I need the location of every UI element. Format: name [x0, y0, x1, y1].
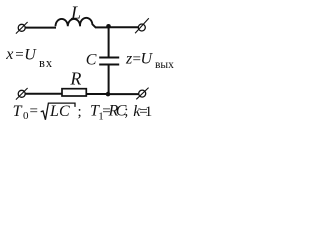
- node (top junction): [106, 24, 111, 29]
- capacitor C: [99, 58, 119, 65]
- node z = Uvyh label: [125, 50, 174, 71]
- svg-text:;: ;: [124, 103, 128, 119]
- svg-text:L: L: [49, 103, 59, 120]
- wire capacitor to bottom node: [108, 66, 110, 95]
- svg-text:T: T: [13, 103, 23, 120]
- svg-text:=: =: [15, 47, 23, 63]
- wire node to capacitor: [108, 27, 110, 56]
- svg-text:1: 1: [145, 104, 153, 120]
- svg-text:x: x: [5, 46, 13, 63]
- wire resistor to bottom node: [86, 93, 108, 95]
- terminal (input bottom): [16, 88, 28, 100]
- wire node to output terminal: [109, 26, 139, 28]
- terminal (output top): [135, 18, 149, 33]
- node x = Uvx label: [5, 46, 53, 70]
- node (bottom junction): [106, 92, 111, 97]
- terminal (input top): [16, 22, 28, 34]
- svg-text:=: =: [30, 104, 38, 120]
- wire bottom-left: [25, 93, 62, 95]
- resistor R: [62, 89, 86, 96]
- svg-text:;: ;: [78, 104, 82, 120]
- svg-text:R: R: [69, 69, 81, 89]
- svg-text:вых: вых: [155, 59, 174, 71]
- formula T0 = sqrt(LC): [13, 103, 82, 122]
- svg-text:L: L: [70, 2, 81, 22]
- svg-text:вх: вх: [39, 56, 53, 70]
- wire top-left: [25, 27, 56, 29]
- wire bottom node to output terminal: [108, 93, 139, 95]
- wire inductor to node: [95, 26, 109, 28]
- svg-text:U: U: [24, 46, 37, 63]
- svg-text:0: 0: [23, 110, 29, 122]
- svg-text:C: C: [59, 103, 70, 120]
- svg-text:C: C: [86, 52, 97, 69]
- svg-text:U: U: [141, 51, 154, 68]
- radical sign: [41, 103, 75, 120]
- terminal (output bottom): [136, 88, 148, 100]
- inductor L: [56, 18, 96, 28]
- formula T1 = RC; k=1: [90, 102, 152, 122]
